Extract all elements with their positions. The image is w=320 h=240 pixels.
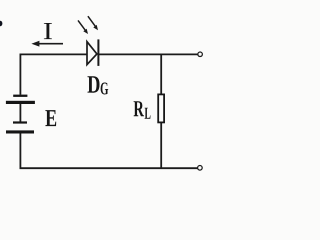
- wire left vertical upper (top wire down to battery): [19, 54, 21, 95]
- wire top-left horizontal (battery to photodiode anode): [20, 53, 88, 55]
- label L subscript of R: [145, 108, 151, 119]
- label R (load resistor): [134, 101, 144, 116]
- wire top-right horizontal (photodiode cathode to top terminal): [98, 53, 197, 55]
- wire left vertical lower (battery to bottom wire): [19, 133, 21, 169]
- terminal node bottom: [198, 166, 203, 171]
- label E (battery): [45, 110, 56, 126]
- label D (photodiode): [87, 76, 99, 93]
- wire battery inter-cell: [19, 104, 21, 122]
- light arrow 2 into photodiode: [88, 16, 98, 30]
- resistor RL box: [158, 94, 164, 122]
- battery E cell 2 long plate: [6, 130, 34, 133]
- label I (current): [44, 23, 52, 39]
- battery E cell 1 short plate: [13, 95, 27, 97]
- wire right branch lower (resistor to bottom wire): [160, 123, 162, 168]
- current arrow I: [31, 41, 63, 47]
- light arrow 1 into photodiode: [78, 20, 88, 34]
- wire bottom horizontal: [20, 167, 198, 169]
- photodiode DG triangle (anode): [87, 42, 97, 65]
- wire right branch upper (top wire down to resistor): [160, 54, 162, 94]
- battery E cell 1 long plate: [6, 101, 35, 104]
- terminal node top: [198, 52, 203, 57]
- label G subscript of D: [101, 83, 109, 95]
- battery E cell 2 short plate: [13, 121, 27, 123]
- photodiode DG cathode bar: [97, 39, 99, 66]
